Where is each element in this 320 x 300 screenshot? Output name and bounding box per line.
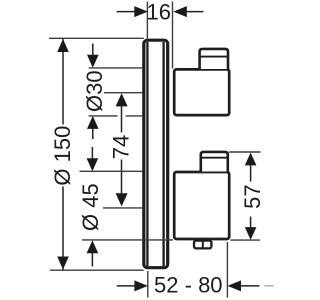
extension line plate bottom (Ø150) <box>50 269 144 271</box>
extension line knob1 bottom (Ø30) <box>89 115 143 117</box>
safety button tab below knob 2 <box>194 241 211 249</box>
extension line 52-80 right <box>226 242 228 298</box>
dim Ø30 top arrow <box>87 44 99 68</box>
extension line knob2 top (Ø45) <box>80 170 143 172</box>
dim 52-80 right arrow <box>228 280 274 291</box>
escutcheon plate outer profile <box>144 40 168 268</box>
svg-text:Ø 45: Ø 45 <box>78 183 103 231</box>
dim 16 left arrow <box>117 6 148 17</box>
svg-text:74: 74 <box>109 135 134 159</box>
dim Ø30 bottom arrow <box>87 116 99 139</box>
knob 1 base cylinder <box>174 69 229 115</box>
svg-text:57: 57 <box>240 184 265 208</box>
knob 1 grip <box>200 49 228 69</box>
dim 52-80 left arrow <box>117 280 148 291</box>
extension line knob1 top (Ø30) <box>89 67 143 69</box>
extension line plate top (Ø150) <box>49 37 144 39</box>
dim Ø45 top arrow <box>87 147 99 171</box>
extension line knob2 center (74 bottom) <box>103 207 142 209</box>
svg-text:16: 16 <box>147 0 171 25</box>
extension line knob2 bottom left (Ø45) <box>82 239 173 241</box>
dim 74 line + arrows <box>116 93 128 206</box>
dim Ø45 bottom arrow <box>87 240 99 266</box>
dim 57 line + arrows <box>245 153 257 240</box>
svg-text:Ø 150: Ø 150 <box>50 126 75 186</box>
knob 2 base cylinder <box>174 172 229 239</box>
dim Ø150 line + arrows <box>57 39 69 270</box>
extension line knob1 center (74 top) <box>104 92 142 94</box>
extension line 16 left <box>146 2 148 39</box>
extension line 57 top (grip top) <box>229 151 261 153</box>
dim 16 right arrow <box>173 6 203 17</box>
extension line 57 bottom right <box>231 239 261 241</box>
plate inner front line <box>162 42 164 266</box>
extension line 16 right <box>172 2 174 69</box>
plate inner back line <box>146 42 148 266</box>
svg-text:Ø30: Ø30 <box>82 70 107 112</box>
extension line 52-80 left <box>147 271 149 298</box>
svg-text:52 - 80: 52 - 80 <box>154 272 223 297</box>
knob 2 grip <box>201 152 228 172</box>
